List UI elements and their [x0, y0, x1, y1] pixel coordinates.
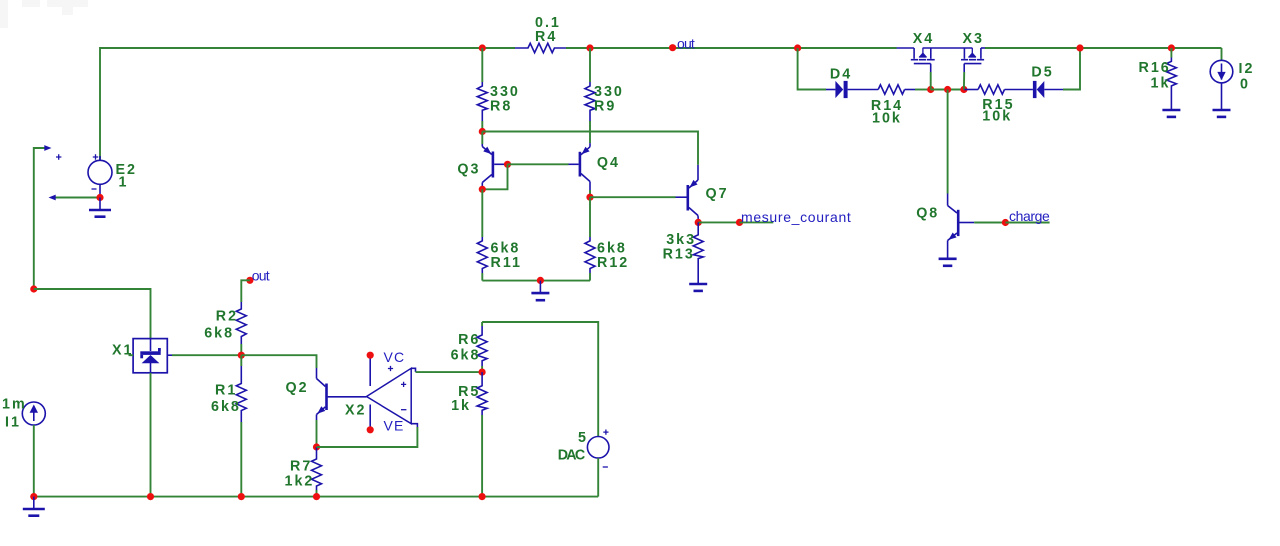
- node R5/R6: [479, 369, 486, 376]
- svg-text:1k2: 1k2: [285, 473, 315, 489]
- svg-text:6k8: 6k8: [451, 348, 481, 364]
- node Q8 collector net: [944, 86, 951, 93]
- wire R7 bottom: [316, 490, 318, 497]
- resistor R9: [585, 48, 624, 121]
- screen artifact: [62, 7, 73, 15]
- wire R11-R12: [482, 280, 590, 282]
- screen artifact: [22, 0, 40, 7]
- zener X1: [112, 339, 172, 373]
- node mesure_courant: [736, 219, 743, 226]
- resistor R15: [964, 85, 1033, 125]
- svg-text:6k8: 6k8: [211, 399, 241, 415]
- resistor R12: [585, 197, 629, 273]
- mosfet X4: [897, 31, 973, 72]
- wire R2 bottom: [240, 344, 242, 355]
- svg-text:10k: 10k: [982, 108, 1012, 124]
- svg-text:VC: VC: [384, 349, 406, 365]
- wire R6 bottom: [481, 366, 483, 372]
- resistor R2: [204, 302, 246, 344]
- wire gate node mid: [931, 89, 964, 91]
- wire top rail left: [100, 48, 515, 160]
- E2 control pin -: [49, 195, 101, 201]
- svg-text:1m: 1m: [2, 397, 27, 413]
- node Q3 base: [504, 161, 511, 168]
- node R8 top: [479, 44, 486, 51]
- svg-text:mesure_courant: mesure_courant: [741, 209, 852, 225]
- ground mid: [531, 281, 549, 301]
- resistor R14: [871, 85, 915, 127]
- svg-text:1k: 1k: [451, 398, 471, 414]
- svg-text:out: out: [252, 268, 271, 284]
- current source I2: [1210, 60, 1254, 92]
- node R9 top: [586, 44, 593, 51]
- wire to D4: [798, 48, 826, 90]
- node Q2 emitter: [313, 443, 320, 450]
- resistor R4: [515, 15, 566, 53]
- op-amp X2 input -: [401, 409, 406, 411]
- wire mesure_courant 2: [740, 221, 774, 223]
- node rail R5: [479, 493, 486, 500]
- wire R8 node to Q7: [482, 132, 698, 165]
- wire charge 2: [1005, 222, 1049, 224]
- svg-text:R12: R12: [597, 255, 629, 271]
- node Q4 collector: [586, 194, 593, 201]
- ground Q8: [939, 259, 957, 266]
- vcvs E2: [88, 154, 137, 194]
- op-amp X2 input +: [401, 382, 406, 387]
- node X3 gate: [960, 86, 967, 93]
- node X1/R1/R2: [238, 352, 245, 359]
- node Q3 collector: [479, 186, 486, 193]
- node R16 top: [1168, 44, 1175, 51]
- transistor Q8: [916, 194, 974, 259]
- svg-text:Q3: Q3: [457, 162, 480, 178]
- svg-text:R13: R13: [663, 247, 695, 263]
- svg-text:I2: I2: [1239, 61, 1255, 77]
- node X4 gate: [927, 86, 934, 93]
- wire feedback: [317, 427, 418, 447]
- svg-text:Q7: Q7: [706, 186, 729, 202]
- svg-text:Q4: Q4: [597, 155, 620, 171]
- screen artifact: [47, 0, 88, 7]
- resistor R8: [477, 48, 520, 121]
- op-amp X2 pin VE: [367, 405, 405, 434]
- node out: [669, 35, 696, 51]
- svg-text:X4: X4: [913, 31, 935, 47]
- wire Q7 collector: [697, 219, 699, 222]
- svg-text:3k3: 3k3: [666, 232, 696, 248]
- node rail R7: [313, 493, 320, 500]
- wire I1 bottom: [33, 425, 35, 497]
- svg-text:VE: VE: [384, 418, 405, 434]
- ground bottom left: [23, 497, 45, 516]
- wire DAC bottom: [597, 458, 599, 497]
- wire + input jog: [411, 368, 415, 372]
- wire node to Q2 collector: [241, 355, 316, 368]
- node rail/ground: [30, 493, 37, 500]
- node left tap: [30, 285, 37, 292]
- svg-text:out: out: [677, 35, 696, 51]
- wire X4 gate: [930, 72, 932, 90]
- svg-text:charge: charge: [1009, 208, 1051, 224]
- E2 control pin +: [34, 145, 62, 289]
- svg-text:R11: R11: [491, 255, 522, 271]
- transistor Q4: [569, 143, 620, 190]
- svg-text:6k8: 6k8: [491, 240, 521, 256]
- screen artifact: [0, 0, 8, 28]
- wire R6 top to DAC: [482, 322, 598, 437]
- ground R16: [1162, 110, 1180, 117]
- resistor R7: [285, 447, 322, 490]
- diode D4: [826, 66, 878, 98]
- wire charge: [974, 222, 1005, 224]
- wire I2 top: [1221, 48, 1223, 60]
- wire bases Q3-Q4: [508, 163, 569, 165]
- wire bottom rail: [34, 496, 598, 498]
- wire D5 up to rail: [1063, 48, 1080, 90]
- node top rail D4 branch: [794, 44, 801, 51]
- svg-text:R1: R1: [215, 383, 237, 399]
- svg-text:D5: D5: [1031, 65, 1053, 81]
- resistor R16: [1139, 48, 1177, 110]
- svg-text:DAC: DAC: [558, 448, 588, 464]
- wire Q4 to Q7 base: [590, 196, 676, 198]
- mosfet X3: [961, 31, 985, 72]
- node E2 minus: [96, 194, 103, 201]
- wire out to R2: [241, 280, 250, 302]
- wire X1 bottom: [150, 373, 152, 497]
- svg-text:10k: 10k: [872, 110, 902, 126]
- wire base tie down: [482, 164, 507, 189]
- svg-text:R16: R16: [1139, 60, 1171, 76]
- wire feedback jog: [411, 424, 417, 427]
- wire X3 gate: [963, 72, 965, 90]
- resistor R13: [663, 222, 704, 284]
- svg-text:0: 0: [1240, 76, 1250, 92]
- node D5 rail: [1076, 44, 1083, 51]
- resistor R6: [451, 322, 488, 366]
- wire Q8 collector: [947, 90, 949, 194]
- svg-text:1k: 1k: [1151, 75, 1171, 91]
- node charge: [1002, 219, 1009, 226]
- node rail X1: [147, 493, 154, 500]
- wire + input to R5/R6: [416, 371, 483, 373]
- wire mesure_courant: [698, 221, 739, 223]
- svg-text:Q2: Q2: [286, 380, 309, 396]
- node rail R1: [238, 493, 245, 500]
- svg-text:R7: R7: [290, 458, 312, 474]
- node out2: [246, 268, 271, 284]
- svg-text:6k8: 6k8: [204, 326, 234, 342]
- wire to X1: [34, 289, 151, 339]
- svg-text:D4: D4: [830, 66, 852, 82]
- voltage source DAC: [558, 430, 609, 468]
- wire R8 bottom: [481, 121, 483, 132]
- wire R5 bottom: [481, 415, 483, 497]
- node mid ground: [537, 277, 544, 284]
- svg-text:R9: R9: [594, 98, 616, 114]
- transistor Q2: [286, 368, 367, 420]
- node Q7 collector: [695, 219, 702, 226]
- wire top rail right: [985, 47, 1222, 49]
- transistor Q3: [457, 132, 507, 190]
- node R8/Q3: [479, 128, 486, 135]
- svg-text:R4: R4: [535, 29, 557, 45]
- svg-text:R8: R8: [490, 98, 512, 114]
- svg-text:R2: R2: [216, 309, 238, 325]
- wire R12 bottom: [589, 273, 591, 281]
- svg-text:Q8: Q8: [916, 206, 939, 222]
- resistor R11: [477, 189, 522, 273]
- wire R11 bottom: [481, 273, 483, 281]
- wire Q4 collector: [589, 190, 591, 197]
- wire R14 to node: [915, 89, 931, 91]
- op-amp X2: [345, 368, 411, 423]
- wire R1 bottom: [240, 422, 242, 497]
- svg-text:X2: X2: [345, 403, 367, 419]
- wire I2 bottom: [1221, 83, 1223, 110]
- svg-text:1: 1: [119, 175, 129, 191]
- svg-text:6k8: 6k8: [597, 240, 627, 256]
- svg-text:X1: X1: [112, 343, 134, 359]
- ground I2: [1213, 110, 1231, 117]
- svg-text:R6: R6: [458, 332, 480, 348]
- current source I1: [2, 397, 45, 431]
- transistor Q7: [676, 165, 729, 219]
- ground R13: [689, 284, 707, 291]
- resistor R1: [211, 355, 246, 422]
- diode D5: [1031, 65, 1063, 99]
- wire top rail mid: [566, 47, 897, 49]
- wire Q2 emitter: [316, 420, 318, 447]
- ground E2: [89, 198, 111, 217]
- resistor R5: [451, 372, 487, 415]
- wire X1 right: [172, 354, 241, 356]
- wire R9 to Q4: [589, 121, 591, 143]
- svg-text:I1: I1: [5, 415, 21, 431]
- svg-text:5: 5: [578, 430, 588, 446]
- op-amp X2 pin VC: [367, 349, 406, 386]
- svg-text:X3: X3: [963, 31, 985, 47]
